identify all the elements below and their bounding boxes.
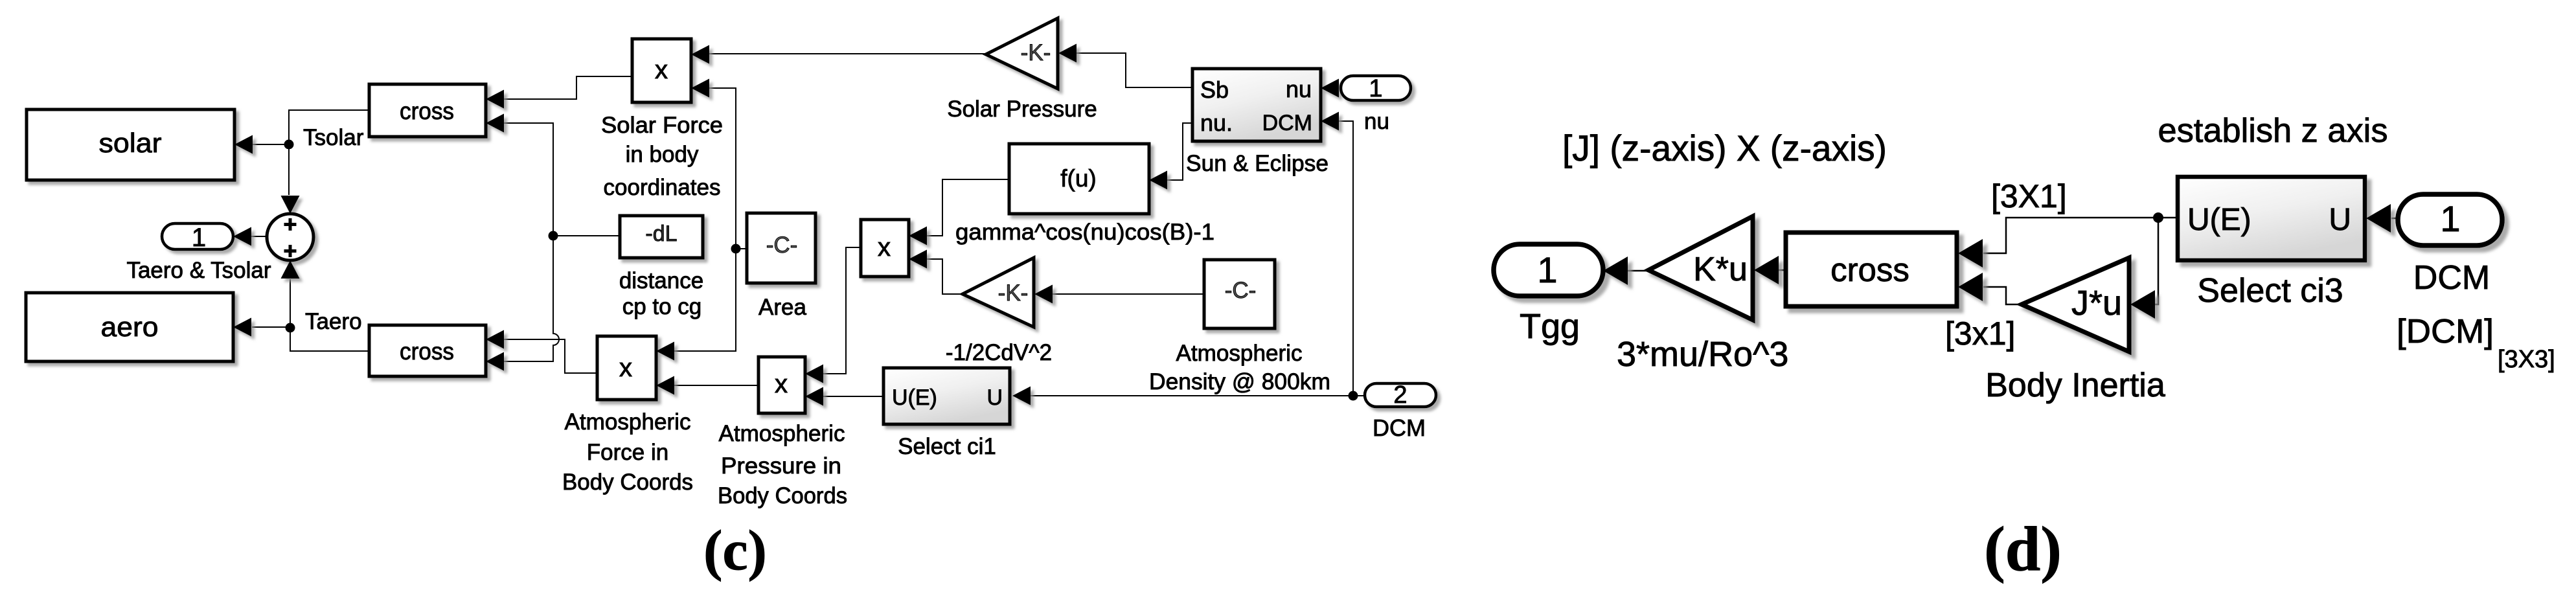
svg-text:Taero & Tsolar: Taero & Tsolar (126, 258, 271, 283)
svg-text:[DCM]: [DCM] (2397, 313, 2494, 350)
sum plus top (284, 218, 297, 231)
svg-text:-C-: -C- (1225, 278, 1257, 303)
inport oval 1 nu (1341, 76, 1411, 100)
svg-text:1: 1 (1369, 75, 1382, 102)
goto block aero (26, 293, 233, 361)
svg-text:Atmospheric: Atmospheric (719, 421, 845, 446)
subsystem cross d (1786, 233, 1957, 306)
subsystem cross (bottom) (369, 325, 486, 376)
junction node Tsolar (284, 140, 294, 150)
selector block Select ci3 (2178, 177, 2365, 260)
arrow into cross2 input1 (486, 330, 504, 349)
wire Taero to aero block (252, 326, 290, 328)
wire sum output to outport 1 (251, 236, 266, 237)
wire gamma x output to atm pressure x input1 (823, 247, 861, 374)
svg-text:x: x (619, 354, 632, 382)
svg-text:1: 1 (2440, 198, 2460, 239)
svg-text:J*u: J*u (2071, 284, 2122, 323)
svg-text:(d): (d) (1984, 514, 2062, 584)
arrow into sum top (281, 196, 300, 214)
svg-text:1: 1 (1537, 249, 1557, 290)
constant block atmospheric density (1204, 260, 1275, 328)
arrow into J*u gain (2130, 290, 2155, 319)
svg-text:3*mu/Ro^3: 3*mu/Ro^3 (1617, 335, 1788, 374)
svg-text:[J] (z-axis) X (z-axis): [J] (z-axis) X (z-axis) (1562, 128, 1887, 168)
wire Sb port to solar pressure gain input (1076, 53, 1192, 87)
wire Select ci3 output to cross d input1 (1983, 218, 2178, 253)
wire Tsolar to solar block (253, 144, 289, 145)
arrow into outport Tgg (1603, 256, 1628, 285)
junction node DCM (1349, 391, 1358, 401)
arrow into solar (234, 135, 253, 154)
svg-text:[3x1]: [3x1] (1945, 315, 2015, 352)
arrow into aero (233, 318, 251, 337)
inport oval 1 DCM (2398, 194, 2502, 245)
svg-text:[3X3]: [3X3] (2498, 346, 2555, 373)
arrow into K*u gain (1754, 256, 1779, 284)
wire nu. port to f(u) input (1167, 123, 1192, 180)
junction node Area (731, 244, 741, 254)
svg-text:x: x (775, 370, 788, 398)
arrow into cross2 input2 (486, 352, 504, 371)
svg-text:cross: cross (1830, 251, 1909, 288)
svg-text:DCM: DCM (1373, 415, 1426, 441)
junction node -dL (549, 231, 558, 241)
svg-text:[3X1]: [3X1] (1991, 178, 2067, 214)
svg-text:U: U (2329, 203, 2351, 237)
arrow into gamma x input2 (909, 250, 927, 269)
arrow into solar force x input1 (691, 45, 709, 64)
svg-text:f(u): f(u) (1060, 165, 1097, 192)
arrow into atm pressure x input2 (805, 387, 823, 406)
wire Area to solar force x input2 and atm force x input1 (674, 88, 736, 351)
svg-text:U(E): U(E) (892, 385, 937, 410)
wire f(u) output to gamma x input1 (927, 179, 1009, 236)
arrow into cross d input2 (1958, 273, 1983, 301)
arrow into outport 1 (233, 227, 251, 246)
svg-text:nu.: nu. (1200, 109, 1233, 136)
arrow into cross1 input1 (486, 90, 504, 109)
svg-text:cross: cross (400, 98, 454, 124)
sum plus bottom (284, 245, 297, 257)
outport oval 1 Tgg (1494, 244, 1603, 296)
gain block solar pressure (986, 18, 1058, 89)
arrow into Sun Eclipse DCM port (1321, 112, 1339, 131)
product block atmospheric force (597, 336, 656, 400)
svg-text:Tgg: Tgg (1520, 307, 1580, 346)
wire atm pressure x output to atm force x input2 (674, 385, 758, 386)
goto block solar (27, 109, 234, 180)
arrow into solar pressure gain (1058, 44, 1077, 63)
svg-text:coordinates: coordinates (604, 175, 721, 200)
svg-text:-K-: -K- (998, 280, 1029, 306)
arrow into cross d input1 (1958, 239, 1983, 267)
arrow into f(u) (1149, 171, 1167, 190)
wire Select ci3 branch to J*u gain (2155, 218, 2158, 304)
svg-text:Tsolar: Tsolar (303, 125, 364, 150)
inport oval 2 DCM (1365, 383, 1436, 407)
subsystem cross (top) (369, 84, 486, 137)
svg-text:x: x (655, 56, 668, 84)
svg-text:cp to cg: cp to cg (622, 294, 702, 319)
wire Select ci1 output to atm pressure x input2 (823, 396, 883, 397)
svg-text:U(E): U(E) (2187, 203, 2251, 237)
constant block Area (747, 213, 815, 283)
arrow into atm pressure x input1 (805, 365, 823, 383)
sum block (267, 214, 313, 260)
svg-text:Atmospheric: Atmospheric (565, 409, 691, 435)
svg-text:DCM: DCM (2413, 259, 2490, 297)
wire J*u gain output to cross d input2 (1983, 287, 2022, 304)
svg-text:Select ci1: Select ci1 (898, 434, 996, 459)
arrow into atm force x input2 (656, 376, 674, 395)
arrow into Select ci3 (2366, 204, 2391, 233)
svg-text:U: U (986, 385, 1003, 410)
svg-text:nu: nu (1364, 109, 1389, 134)
wire solar force x to cross1 input1 (504, 76, 632, 99)
svg-text:-C-: -C- (766, 233, 798, 258)
gain block J*u (2022, 258, 2129, 352)
svg-text:Area: Area (758, 295, 806, 320)
svg-text:-K-: -K- (1021, 40, 1051, 65)
svg-text:Sb: Sb (1200, 76, 1229, 103)
product block atmospheric pressure (758, 357, 805, 413)
svg-text:Taero: Taero (305, 309, 362, 334)
svg-text:distance: distance (619, 268, 703, 293)
svg-text:Solar Force: Solar Force (601, 113, 723, 138)
wire Area output (736, 248, 747, 249)
wire Taero: cross2 output to sum (290, 279, 369, 351)
arrow into Select ci1 (1012, 387, 1031, 405)
svg-text:establish z axis: establish z axis (2158, 112, 2388, 150)
svg-text:gamma^cos(nu)cos(B)-1: gamma^cos(nu)cos(B)-1 (955, 220, 1214, 245)
svg-text:aero: aero (101, 312, 159, 342)
gain block K*u (1648, 216, 1753, 320)
wire solar pressure gain to solar force x input1 (709, 53, 986, 54)
wire -dL output (553, 235, 621, 236)
wire DCM inport 2 to Select ci1 and Sun Eclipse DCM port (1031, 395, 1365, 396)
junction node Select ci3 output (2153, 212, 2163, 223)
svg-text:DCM: DCM (1262, 111, 1312, 135)
svg-text:-1/2CdV^2: -1/2CdV^2 (946, 340, 1052, 365)
svg-text:Atmospheric: Atmospheric (1176, 341, 1303, 366)
junction node Taero (286, 323, 295, 333)
svg-text:Body Inertia: Body Inertia (1985, 367, 2165, 404)
gain block -1/2CdV^2 (963, 258, 1034, 327)
svg-text:Body Coords: Body Coords (562, 470, 693, 495)
svg-text:solar: solar (99, 128, 162, 158)
constant block -dL (620, 216, 703, 258)
wire atmospheric density to aero gain input (1052, 293, 1204, 295)
subsystem Sun &amp; Eclipse (1192, 69, 1321, 141)
wire aero gain output to gamma x input2 (927, 259, 963, 294)
wire cross d output to K*u gain (1778, 269, 1785, 271)
svg-text:Density @ 800km: Density @ 800km (1149, 369, 1330, 394)
arrow into aero gain (1034, 285, 1053, 304)
arrow into Sun Eclipse nu port (1321, 79, 1339, 98)
svg-text:2: 2 (1393, 381, 1407, 409)
svg-text:Pressure in: Pressure in (721, 453, 841, 479)
wire DCM oval to Select ci3 (2391, 218, 2399, 220)
wire Tsolar: cross1 output to solar and sum (289, 110, 369, 195)
svg-text:(c): (c) (703, 519, 767, 582)
arrow into atm force x input1 (656, 342, 674, 361)
svg-text:Body Coords: Body Coords (718, 483, 847, 508)
svg-text:Solar Pressure: Solar Pressure (947, 97, 1097, 122)
svg-text:in body: in body (626, 142, 699, 167)
svg-text:nu: nu (1286, 76, 1312, 102)
svg-text:Force in: Force in (587, 440, 668, 465)
arrow into gamma x input1 (909, 227, 927, 245)
wire DCM riser (1339, 121, 1353, 396)
arrow into sum bottom (281, 260, 300, 279)
svg-text:cross: cross (400, 338, 454, 365)
svg-text:Select ci3: Select ci3 (2197, 272, 2343, 310)
wire -dL to cross2 input2 with hop (504, 236, 559, 361)
arrow into cross1 input2 (486, 114, 504, 133)
product block solar force (632, 39, 691, 102)
arrow into solar force x input2 (691, 79, 709, 98)
svg-text:1: 1 (192, 223, 206, 252)
product block gamma (861, 220, 909, 277)
wire -dL to cross1 input2 (504, 123, 553, 236)
wire atm force x output to cross2 input1 (504, 339, 597, 373)
fcn block f(u) (1009, 144, 1149, 214)
svg-text:-dL: -dL (645, 222, 677, 246)
wire K*u gain to outport Tgg (1626, 270, 1649, 272)
svg-text:Sun & Eclipse: Sun & Eclipse (1186, 151, 1328, 176)
outport 1 Taero &amp; Tsolar (162, 223, 233, 249)
selector block Select ci1 (883, 368, 1010, 424)
svg-text:K*u: K*u (1693, 251, 1748, 288)
svg-text:x: x (878, 233, 891, 262)
